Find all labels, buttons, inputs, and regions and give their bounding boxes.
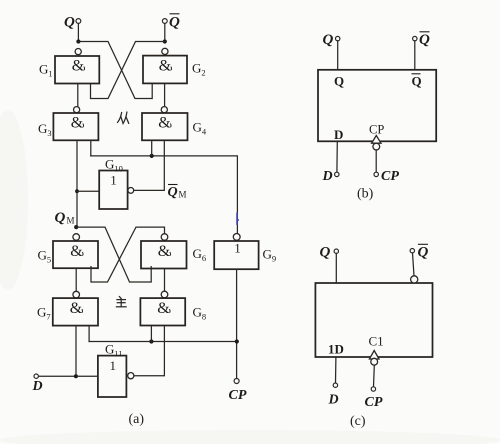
bubble G10 output — [128, 188, 134, 194]
svg-text:CP: CP — [365, 395, 383, 410]
svg-text:&: & — [158, 115, 171, 132]
wire G4 output to G2 input — [164, 84, 166, 107]
wire cross-couple G5 output to G6 input — [76, 227, 151, 282]
block diagram (b) box — [318, 70, 436, 142]
label slave (cong) character — [118, 112, 129, 124]
bubble G4 output — [161, 107, 167, 113]
svg-text:CP: CP — [381, 169, 399, 184]
bubble G6 output — [161, 234, 168, 241]
wire Q-bar pin (c) — [413, 253, 415, 276]
svg-text:Q: Q — [323, 32, 334, 48]
blue pen mark on CP-bar wire — [237, 213, 239, 226]
svg-text:&: & — [70, 300, 83, 317]
label QM node — [55, 210, 75, 226]
node Q-bar terminal (b) — [413, 32, 430, 48]
block diagram (c) box — [315, 283, 432, 357]
node Q terminal (c) — [320, 245, 339, 261]
wire Q pin (b) — [337, 41, 339, 70]
svg-text:(a): (a) — [129, 412, 145, 427]
wire cross-couple G1 output to G2 input — [78, 42, 152, 99]
wire Q terminal to junction — [77, 24, 79, 42]
bubble Q-bar output (c) — [411, 276, 418, 283]
wire G7 output to G5 input — [75, 268, 77, 291]
wire G7 left input to D line — [75, 326, 77, 377]
svg-text:Q: Q — [169, 15, 180, 31]
wire G7 right input riser — [88, 326, 90, 342]
node Q terminal (b) — [323, 32, 340, 48]
gate G9 — [214, 241, 276, 270]
gate G1 — [39, 56, 99, 84]
wire Q pin (c) — [335, 253, 337, 283]
junction G1 output node — [76, 39, 80, 43]
svg-text:D: D — [334, 127, 343, 142]
gate G8 — [140, 298, 206, 325]
bubble CP pin (b) — [373, 143, 380, 150]
svg-text:&: & — [157, 300, 170, 317]
svg-text:Q: Q — [412, 74, 422, 89]
node CP input terminal — [229, 379, 247, 404]
node D terminal (c) — [328, 383, 339, 408]
svg-text:Q: Q — [419, 32, 430, 48]
bubble G7 output — [73, 291, 80, 298]
gate G4 — [142, 113, 207, 140]
wire slave clock bus to G9 output — [91, 156, 238, 233]
bubble G3 output — [74, 107, 80, 113]
junction QM node — [74, 225, 78, 229]
wire G8 output to G6 input — [164, 269, 166, 292]
wire G4 right input to G10 output — [134, 140, 165, 190]
wire cross-couple G6 output to G5 input — [91, 227, 165, 282]
dynamic clock triangle (b) — [372, 136, 381, 144]
svg-text:M: M — [179, 190, 187, 200]
svg-text:&: & — [72, 58, 85, 75]
node CP terminal (b) — [374, 169, 399, 184]
wire cross-couple G2 output to G1 input — [91, 42, 165, 99]
junction G7 input on D line — [74, 374, 78, 378]
gate G6 — [141, 241, 206, 269]
gate G2 — [143, 56, 206, 84]
junction G10 input branch — [75, 189, 79, 193]
bubble CP pin (c) — [371, 358, 378, 365]
svg-text:&: & — [159, 58, 172, 75]
svg-text:M: M — [67, 216, 75, 226]
svg-text:&: & — [158, 243, 171, 260]
svg-text:D: D — [322, 169, 333, 184]
bubble G5 output — [73, 234, 80, 241]
gate G3 — [38, 113, 98, 140]
wire CP pin (b) — [375, 150, 377, 172]
dynamic clock triangle (c) — [369, 351, 379, 360]
svg-text:1: 1 — [234, 241, 241, 256]
wire CP pin (c) — [373, 365, 376, 386]
junction G2 output node — [163, 39, 167, 43]
svg-text:&: & — [70, 243, 83, 260]
node D input terminal — [32, 374, 43, 394]
wire QM branch to G10 input — [77, 190, 99, 192]
gate G11 — [98, 342, 127, 398]
bubble G1 output — [75, 49, 81, 55]
wire Q-bar pin (b) — [414, 41, 416, 70]
gate G10 — [99, 157, 127, 210]
node CP terminal (c) — [365, 387, 383, 410]
bubble G9 output — [233, 234, 240, 241]
node D terminal (b) — [322, 169, 339, 184]
svg-text:Q: Q — [320, 245, 331, 261]
wire G8 right input to G11 output — [134, 326, 164, 376]
wire Q-bar terminal to junction — [164, 24, 166, 42]
junction G8 left input on bus — [149, 339, 153, 343]
svg-text:C1: C1 — [369, 334, 384, 349]
junction CP on master bus — [235, 339, 239, 343]
wire G4 left input riser — [151, 140, 153, 156]
svg-text:(c): (c) — [350, 414, 366, 429]
wire G8 left input riser — [150, 326, 152, 342]
label master (zhu) character — [116, 297, 126, 307]
svg-text:(b): (b) — [357, 187, 374, 202]
svg-text:Q: Q — [168, 185, 178, 200]
node Q-bar terminal (c) — [410, 244, 428, 260]
wire master clock bus — [89, 341, 237, 343]
wire G3 left input down to QM node — [76, 140, 78, 227]
wire G3 right input riser — [90, 140, 92, 156]
bubble G8 output — [161, 291, 168, 298]
svg-text:Q: Q — [55, 210, 66, 226]
svg-text:Q: Q — [418, 245, 429, 261]
svg-text:D: D — [328, 393, 339, 408]
wire D pin (b) — [336, 141, 338, 172]
svg-text:&: & — [71, 115, 84, 132]
label QM-bar node — [168, 185, 187, 201]
svg-text:1: 1 — [110, 358, 117, 373]
bubble G2 output — [162, 48, 168, 54]
wire D pin (c) — [335, 357, 337, 383]
svg-text:Q: Q — [334, 74, 344, 89]
svg-text:D: D — [32, 379, 43, 394]
wire G3 output to G1 input — [77, 84, 79, 107]
svg-text:1D: 1D — [328, 342, 344, 357]
node Q output terminal — [64, 15, 81, 31]
wire CP vertical — [236, 269, 238, 378]
svg-text:CP: CP — [369, 123, 384, 137]
svg-text:Q: Q — [64, 15, 75, 31]
gate G5 — [38, 241, 99, 268]
svg-text:CP: CP — [229, 388, 247, 403]
gate G7 — [37, 298, 98, 326]
bubble G11 output — [128, 373, 134, 379]
svg-text:1: 1 — [110, 173, 117, 188]
node Q-bar output terminal — [162, 14, 180, 31]
junction G4 left input on bus — [150, 154, 154, 158]
pin label Q-bar inside (b) — [412, 74, 422, 89]
wire D input line — [38, 375, 98, 377]
